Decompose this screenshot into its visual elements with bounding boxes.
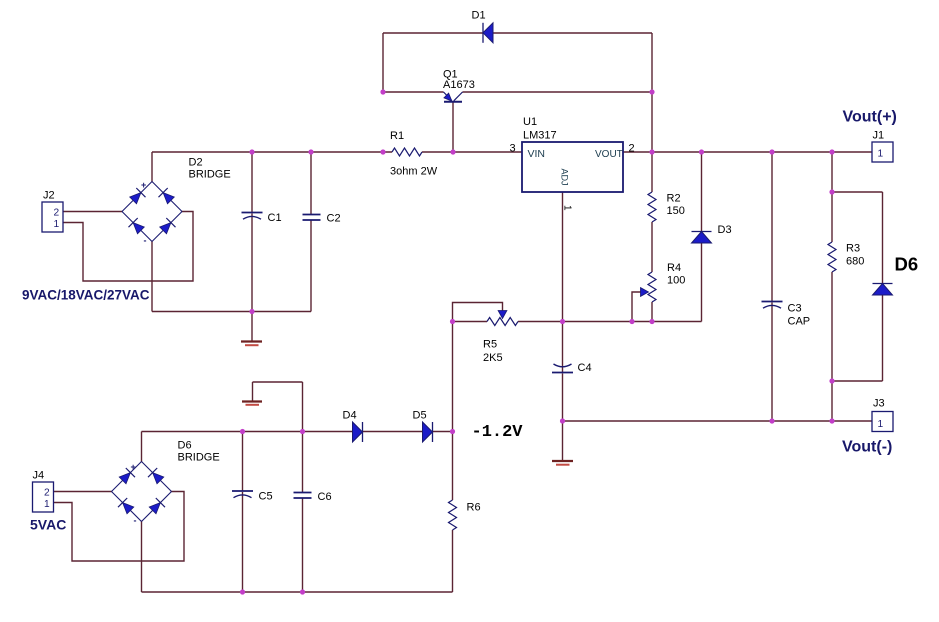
junction at 452.5,431.5 [450, 429, 455, 434]
svg-text:2: 2 [54, 208, 60, 219]
wire right vertical x=652 from top loop to VOUT rail [651, 33, 653, 152]
wire VOUT rail to J1 [623, 151, 872, 153]
junction at 772,152 [769, 149, 774, 154]
junction at 452.5,321.5 [450, 319, 455, 324]
svg-text:680: 680 [846, 256, 864, 268]
junction at 652,152 [649, 149, 654, 154]
junction at 562.5,321.5 [560, 319, 565, 324]
capacitor C6 [294, 491, 332, 503]
wire R2 to R4 [651, 222, 653, 272]
svg-text:1: 1 [54, 219, 60, 230]
svg-text:Vout(+): Vout(+) [843, 109, 897, 126]
wire J2 pin1 loop [63, 212, 193, 282]
wire J4 pin2 to bridge [53, 491, 112, 493]
svg-text:100: 100 [667, 275, 685, 287]
resistor R6 [449, 500, 481, 530]
wire R5 wiper loop [453, 303, 503, 322]
svg-text:CAP: CAP [788, 316, 811, 328]
wire ground G3 link [253, 381, 303, 383]
wire C6 lower lead [302, 498, 304, 592]
junction at 632,321.5 [629, 319, 634, 324]
wire stub from D6 bottom [832, 380, 883, 382]
wire main VIN rail R1 to U1 [422, 151, 522, 153]
wire C5 bottom lead [242, 492, 244, 592]
svg-text:5VAC: 5VAC [30, 517, 66, 533]
svg-text:3ohm 2W: 3ohm 2W [390, 166, 438, 178]
junction at 832,381 [829, 378, 834, 383]
wire C1 bottom lead [251, 214, 253, 312]
wire D1 top loop left vertical [382, 33, 384, 92]
wire C3 bottom lead [771, 303, 773, 422]
wire bridge D2 plus lead [151, 152, 153, 182]
wire adj rail left of R5 [453, 321, 488, 323]
wire left vertical x=452.5 lower R6 to bottom rail [452, 530, 454, 592]
svg-text:ADJ: ADJ [560, 169, 570, 186]
svg-text:J2: J2 [43, 190, 55, 202]
svg-text:BRIDGE: BRIDGE [189, 169, 231, 181]
capacitor C4 [552, 362, 592, 374]
wire J2 pin2 to bridge [63, 211, 122, 213]
diode D3 [692, 224, 732, 243]
bridge rectifier D6 [112, 440, 220, 526]
junction at 772,421 [769, 418, 774, 423]
potentiometer R5 [483, 311, 518, 365]
svg-text:Vout(-): Vout(-) [842, 439, 892, 456]
junction at 252,152 [249, 149, 254, 154]
svg-text:A1673: A1673 [443, 79, 475, 91]
wire R3 top lead [831, 152, 833, 242]
junction at 302.5,431.5 [300, 429, 305, 434]
capacitor C1 [242, 212, 282, 224]
svg-text:VIN: VIN [528, 148, 546, 160]
wire D6 top lead [882, 192, 884, 283]
wire R4 bottom lead [651, 302, 653, 322]
wire D6 bottom lead [882, 296, 884, 382]
junction at 832,421 [829, 418, 834, 423]
ground G2 [552, 461, 573, 465]
junction at 252,311.5 [249, 309, 254, 314]
svg-text:2: 2 [44, 488, 50, 499]
svg-text:C1: C1 [268, 212, 282, 224]
junction at 383,152 [380, 149, 385, 154]
svg-text:VOUT: VOUT [595, 149, 623, 160]
connector J4 [33, 470, 54, 513]
wire C3 top lead [771, 152, 773, 302]
resistor R2 [648, 192, 685, 222]
svg-text:R2: R2 [667, 193, 681, 205]
svg-text:+: + [141, 180, 146, 190]
wire C6 top stub [302, 382, 304, 432]
svg-text:J1: J1 [873, 130, 885, 142]
diode D1 [472, 10, 494, 43]
wire bottom rail to J3 [563, 420, 873, 422]
junction at 242.5,431.5 [240, 429, 245, 434]
wire D1 top loop horizontal [383, 32, 652, 34]
connector J2 [42, 190, 63, 233]
wire R3 bottom lead [831, 272, 833, 421]
connector J3 [872, 398, 893, 432]
svg-text:-: - [144, 236, 147, 246]
svg-text:LM317: LM317 [523, 130, 557, 142]
wire bridge D6 plus lead [141, 432, 143, 462]
wire D3 bottom lead [701, 244, 703, 322]
capacitor C3 [762, 302, 811, 328]
svg-text:C3: C3 [788, 303, 802, 315]
junction at 311,152 [308, 149, 313, 154]
wire Q1 rail right segment [463, 91, 653, 93]
diode D6 [873, 254, 919, 296]
junction at 562.5,421 [560, 418, 565, 423]
transistor Q1 [443, 69, 475, 102]
svg-text:U1: U1 [523, 116, 537, 128]
svg-text:R5: R5 [483, 339, 497, 351]
variable resistor R4 [641, 262, 686, 302]
wire R2 top lead [651, 152, 653, 192]
svg-text:9VAC/18VAC/27VAC: 9VAC/18VAC/27VAC [22, 288, 150, 303]
junction at 302.5,592 [300, 589, 305, 594]
wire ground rail top section [152, 311, 311, 313]
junction at 383,92 [380, 89, 385, 94]
svg-text:C5: C5 [259, 491, 273, 503]
wire left vertical x=452.5 upper [452, 322, 454, 501]
svg-text:D6: D6 [178, 440, 192, 452]
wire bridge D6 minus lead [141, 522, 143, 593]
svg-text:J3: J3 [873, 398, 885, 410]
wire ground G3 stub [252, 382, 254, 402]
svg-text:J4: J4 [33, 470, 45, 482]
ground G1 [241, 342, 262, 346]
svg-text:D1: D1 [472, 10, 486, 22]
wire Q1 base lead [452, 103, 454, 153]
wire ground G2 stub [562, 421, 564, 461]
wire ADJ lead down to C4 [562, 192, 564, 372]
svg-text:R6: R6 [467, 502, 481, 514]
wire C2 bottom lead [310, 220, 312, 312]
diode D5 [413, 410, 433, 443]
svg-text:R4: R4 [667, 262, 681, 274]
svg-text:1: 1 [878, 149, 884, 160]
ground G3 [242, 402, 262, 405]
op-amp regulator U1 LM317 [510, 116, 635, 211]
wire C5 top lead [242, 432, 244, 492]
svg-text:C2: C2 [327, 213, 341, 225]
junction at 242.5,592 [240, 589, 245, 594]
resistor R1 [390, 130, 438, 178]
svg-text:-1.2V: -1.2V [472, 423, 524, 442]
svg-text:D5: D5 [413, 410, 427, 422]
svg-text:1: 1 [562, 205, 573, 211]
svg-text:C4: C4 [578, 362, 592, 374]
svg-text:D2: D2 [189, 157, 203, 169]
junction at 701.5,152 [699, 149, 704, 154]
svg-text:2: 2 [629, 143, 635, 155]
wire D3 top lead [701, 152, 703, 231]
wire C4 bottom lead [562, 374, 564, 422]
capacitor C5 [232, 491, 273, 503]
wire C6 upper lead [302, 432, 304, 493]
resistor R3 [828, 242, 864, 272]
junction at 832,152 [829, 149, 834, 154]
wire bottom rail lower section [142, 591, 453, 593]
svg-text:-: - [134, 516, 137, 526]
wire Q1 rail left segment [383, 91, 444, 93]
junction at 453,152 [450, 149, 455, 154]
capacitor C2 [303, 213, 341, 225]
svg-text:3: 3 [510, 143, 516, 155]
connector J1 [872, 130, 893, 163]
svg-text:D6: D6 [895, 254, 919, 275]
svg-text:R1: R1 [390, 130, 404, 142]
wire stub to D6 top [832, 191, 883, 193]
junction at 652,92 [649, 89, 654, 94]
wire ground G1 stub [251, 312, 253, 342]
bridge rectifier D2 [122, 157, 231, 246]
svg-text:1: 1 [878, 419, 884, 430]
junction at 832,192 [829, 189, 834, 194]
svg-text:C6: C6 [318, 491, 332, 503]
svg-text:1: 1 [44, 499, 50, 510]
wire bridge D2 minus lead [151, 242, 153, 312]
svg-text:D3: D3 [718, 224, 732, 236]
wire R4 wiper loop [632, 292, 641, 322]
diode D4 [343, 410, 363, 443]
wire J4 pin1 loop [53, 492, 184, 562]
wire adj rail right of R5 [518, 321, 702, 323]
wire lower rail with D4 D5 seg3 [433, 431, 453, 433]
svg-text:D4: D4 [343, 410, 357, 422]
wire lower rail with D4 D5 seg2 [363, 431, 423, 433]
svg-text:+: + [131, 462, 136, 472]
wire lower rail with D4 D5 seg1 [142, 431, 353, 433]
junction at 652,321.5 [649, 319, 654, 324]
svg-text:R3: R3 [846, 243, 860, 255]
wire C1 top lead [251, 152, 253, 213]
svg-text:BRIDGE: BRIDGE [178, 452, 220, 464]
svg-text:150: 150 [667, 205, 685, 217]
svg-text:2K5: 2K5 [483, 352, 503, 364]
wire main VIN rail left of R1 [152, 151, 392, 153]
wire C2 top lead [310, 152, 312, 215]
